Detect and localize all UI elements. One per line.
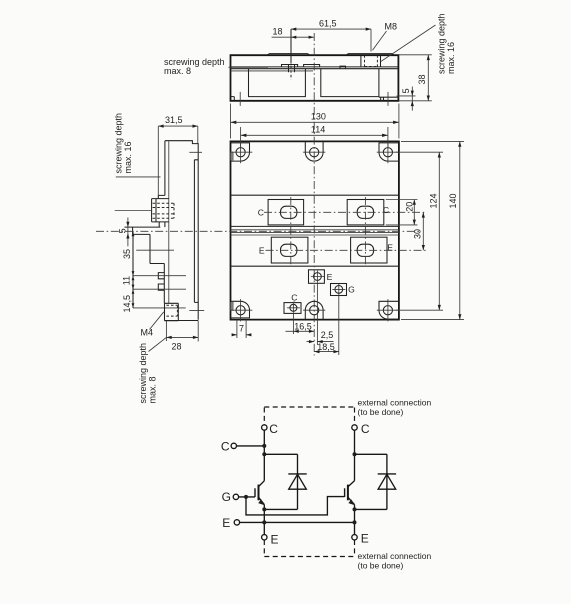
dimension 20 [386, 200, 418, 225]
M8 main terminal block (side) [152, 199, 169, 222]
node emitter junction left [262, 507, 266, 511]
IGBT Q1 collector lead [259, 481, 265, 487]
extension line pins upper [133, 275, 186, 277]
extension line M4 terminal [133, 307, 186, 309]
baseplate line [231, 70, 314, 72]
svg-text:20: 20 [405, 202, 415, 212]
dimension 30 [422, 212, 424, 250]
small terminal bump B [304, 65, 320, 67]
node collector junction left [262, 444, 266, 448]
M8 tapped hole hidden outline [365, 55, 378, 66]
terminal strip right on lid [346, 54, 394, 56]
node diode branch left [262, 452, 266, 456]
flange inner wall [194, 160, 198, 303]
diode D2 cathode bar [378, 473, 396, 475]
clamp notch bottom-left [231, 302, 234, 311]
svg-text:130: 130 [311, 112, 326, 122]
svg-text:C: C [258, 207, 264, 217]
mounting boss top-left [231, 143, 250, 161]
housing seam line upper [231, 66, 399, 68]
E row chain line [266, 249, 427, 251]
centre groove upper [231, 229, 399, 231]
control pin tab upper [158, 273, 164, 279]
svg-text:M4: M4 [141, 327, 154, 337]
left recess pocket [249, 69, 306, 97]
wire gate interconnect [246, 497, 345, 515]
svg-text:11: 11 [122, 276, 132, 285]
dimension 11 [132, 276, 135, 281]
svg-text:5: 5 [401, 88, 411, 93]
svg-text:7: 7 [239, 324, 244, 334]
terminal column centre line [290, 29, 292, 61]
mounting hole marks on flange [189, 152, 204, 310]
svg-text:max. 16: max. 16 [446, 42, 456, 74]
svg-text:28: 28 [172, 342, 182, 352]
feature tick line [136, 249, 174, 251]
leader screwing depth 16 [116, 176, 161, 178]
extension line pins lower [133, 288, 186, 290]
wire emitter down left [263, 505, 265, 535]
module outline (plan) [231, 141, 399, 319]
wire emitter down right [354, 505, 356, 535]
terminal C aux (left) [231, 443, 236, 448]
IGBT Q2 gate bar [344, 488, 346, 497]
node diode branch right [353, 452, 357, 456]
mounting hole bottom-left [236, 306, 245, 315]
dimension 5 (left) [127, 218, 129, 247]
IGBT Q2 collector lead [348, 481, 354, 487]
IGBT Q2 emitter lead with arrow [348, 497, 355, 504]
svg-text:35: 35 [122, 249, 132, 259]
svg-text:G: G [348, 285, 355, 295]
svg-text:18,5: 18,5 [317, 342, 335, 352]
wire to diode D2 [355, 454, 387, 474]
IGBT Q1 emitter lead with arrow [259, 497, 265, 504]
dimension 18,5 [314, 296, 339, 356]
aux terminal G block [331, 284, 347, 296]
dimension 7 [232, 320, 251, 338]
svg-text:max. 16: max. 16 [123, 141, 133, 173]
control pin tab lower [158, 284, 164, 290]
module body outline (side view) [231, 55, 399, 101]
M8 hole centre leader [115, 210, 152, 212]
housing step below terminal [158, 222, 160, 227]
dimension 14,5 [132, 289, 135, 294]
node emitter junction right [353, 507, 357, 511]
dimension 130 [231, 104, 399, 139]
terminal C2 (top right) [352, 425, 357, 430]
M4 nut hidden outline [166, 305, 177, 316]
left foot step [231, 97, 235, 101]
M8 screw boss solid walls [361, 55, 381, 67]
aux terminal E block [309, 270, 325, 284]
baseplate lip [125, 227, 165, 303]
wire gate lead [239, 496, 255, 498]
centre groove lower [231, 232, 399, 234]
dimension 61,5 [291, 29, 371, 51]
clamp notch top-left [231, 152, 234, 161]
dimension 38 [398, 55, 431, 101]
housing left wall upper [158, 141, 165, 199]
terminal bump left on lid [267, 54, 310, 56]
svg-text:(to be done): (to be done) [358, 407, 404, 417]
band line top [231, 194, 399, 196]
external connection top (dashed) [264, 407, 354, 425]
svg-text:124: 124 [429, 193, 439, 208]
hole centre tick left [239, 92, 241, 106]
right recess pocket [321, 69, 379, 97]
svg-text:16,5: 16,5 [294, 322, 312, 332]
housing bottom edge [165, 320, 199, 322]
svg-text:max. 8: max. 8 [148, 376, 158, 403]
diode D1 triangle [289, 474, 307, 489]
external connection bottom (dashed) [264, 540, 354, 557]
terminal block E left [271, 237, 308, 263]
dimension 140 [401, 141, 464, 319]
housing outline top and right flange [165, 141, 198, 320]
svg-text:G: G [222, 490, 231, 504]
clamp E right [357, 244, 373, 256]
terminal E2 (bottom right) [352, 535, 357, 540]
C row chain line [264, 211, 426, 213]
band line E bottom [231, 265, 399, 267]
housing wall below terminal [164, 222, 166, 227]
clamp C left [281, 206, 297, 218]
svg-text:2,5: 2,5 [321, 330, 334, 340]
svg-text:screwing depth: screwing depth [437, 13, 447, 74]
terminal E aux (left) [234, 520, 239, 525]
mounting boss bottom-middle [305, 301, 323, 319]
diode D2 anode lead [386, 474, 388, 510]
clamp C right [357, 206, 373, 218]
svg-text:18: 18 [273, 27, 283, 37]
wire emitter rail [240, 521, 355, 523]
svg-text:C: C [383, 205, 389, 215]
node emitter rail left [262, 520, 266, 524]
aux terminal C block [284, 303, 301, 314]
dimension 18 [272, 36, 314, 38]
wire collector rail left [263, 430, 265, 481]
diode D2 triangle [378, 474, 396, 489]
svg-text:E: E [327, 272, 333, 282]
svg-text:E: E [222, 516, 230, 530]
svg-text:14,5: 14,5 [122, 295, 132, 313]
svg-text:61,5: 61,5 [319, 18, 337, 28]
svg-text:E: E [259, 245, 265, 255]
dimension 114 [241, 127, 388, 148]
IGBT Q2 body bar [347, 485, 349, 501]
dimension 35 [132, 232, 134, 308]
wire collector rail right [354, 430, 356, 481]
dimension 28 [166, 321, 198, 342]
svg-text:114: 114 [311, 125, 325, 135]
vertical centreline (chain) [313, 33, 315, 356]
svg-text:E: E [361, 531, 369, 545]
svg-text:screwing depth: screwing depth [114, 113, 124, 174]
wire diode D1 to emitter [264, 508, 297, 510]
hole centre tick right [387, 92, 389, 106]
mounting boss top-middle [305, 141, 323, 161]
svg-text:31,5: 31,5 [165, 115, 183, 125]
node emitter rail right [353, 520, 357, 524]
svg-text:C: C [291, 293, 297, 303]
mounting boss top-right [379, 143, 399, 161]
wire C aux to rail [237, 445, 265, 447]
terminal C1 (top left) [262, 425, 267, 430]
svg-text:30: 30 [413, 229, 423, 239]
svg-text:C: C [221, 439, 230, 453]
right foot step [379, 97, 399, 101]
M4 auxiliary terminal block [165, 303, 179, 320]
left column chain line [290, 197, 292, 266]
svg-text:C: C [361, 422, 370, 436]
svg-text:140: 140 [448, 193, 458, 208]
clamp E left [281, 244, 297, 256]
IGBT Q1 body bar [258, 485, 260, 501]
terminal G [233, 494, 238, 499]
band line E top [231, 234, 399, 236]
terminal block C right [347, 200, 384, 225]
mounting hole top-left [236, 148, 245, 157]
diode D1 cathode bar [288, 473, 306, 475]
housing seam line lower [231, 68, 399, 70]
svg-text:M8: M8 [385, 21, 398, 31]
M8 nut hidden outline [153, 203, 174, 218]
terminal E1 (bottom left) [262, 535, 267, 540]
small terminal bump C [340, 66, 346, 69]
svg-text:38: 38 [417, 74, 427, 84]
svg-text:(to be done): (to be done) [358, 560, 404, 570]
mounting hole top-right [383, 148, 392, 157]
mounting hole bottom-right [383, 306, 392, 315]
mounting boss bottom-right [379, 301, 399, 319]
wire diode D2 to emitter [355, 508, 387, 510]
wire to diode D1 [264, 454, 297, 474]
horizontal centreline (chain) [96, 230, 421, 232]
node gate junction [244, 495, 248, 499]
diode D1 anode lead [297, 474, 299, 510]
mounting hole bottom-middle [310, 306, 319, 315]
terminal block C left [268, 200, 304, 225]
right column chain line [364, 197, 366, 266]
terminal screw section lines [289, 65, 295, 73]
svg-text:C: C [269, 422, 278, 436]
band line C bottom [231, 225, 399, 227]
small terminal bump A [282, 65, 298, 67]
terminal block E right [351, 237, 387, 263]
IGBT Q1 gate bar [254, 488, 256, 497]
mounting boss bottom-left [231, 301, 250, 318]
housing inner wall [168, 141, 170, 303]
svg-text:screwing depth: screwing depth [138, 343, 148, 404]
svg-text:max. 8: max. 8 [164, 66, 191, 76]
dimension 5 (baseplate) [397, 87, 416, 111]
dimension 124 [396, 152, 443, 310]
dimension 2,5 [307, 283, 334, 345]
mounting hole top-middle [310, 148, 319, 157]
svg-text:E: E [387, 243, 393, 253]
dimension 16,5 [286, 313, 315, 334]
svg-text:E: E [271, 532, 279, 546]
